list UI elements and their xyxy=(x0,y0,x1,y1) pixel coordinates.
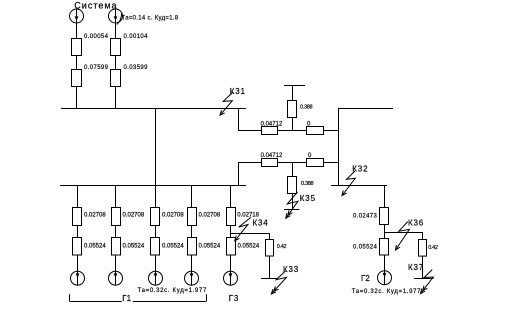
svg-text:0.00104: 0.00104 xyxy=(124,34,149,40)
svg-text:К37: К37 xyxy=(408,263,424,272)
svg-text:К34: К34 xyxy=(253,219,269,228)
svg-text:К33: К33 xyxy=(283,265,299,274)
svg-text:Та=0.14 с. Куд=1.8: Та=0.14 с. Куд=1.8 xyxy=(122,16,179,22)
svg-text:Г3: Г3 xyxy=(229,294,239,303)
svg-text:0.02473: 0.02473 xyxy=(353,214,377,220)
svg-text:0.04712: 0.04712 xyxy=(261,122,283,128)
svg-text:К32: К32 xyxy=(352,164,368,173)
svg-text:0.02718: 0.02718 xyxy=(237,213,259,219)
svg-text:0.02708: 0.02708 xyxy=(123,213,145,219)
svg-text:0.00054: 0.00054 xyxy=(84,34,109,40)
svg-text:0.02708: 0.02708 xyxy=(84,213,106,219)
svg-text:0.04712: 0.04712 xyxy=(261,153,283,159)
svg-text:0.03599: 0.03599 xyxy=(124,65,149,71)
svg-text:0.05524: 0.05524 xyxy=(238,244,260,250)
svg-text:Г1: Г1 xyxy=(122,294,131,303)
svg-text:0.05524: 0.05524 xyxy=(123,244,145,250)
svg-text:Та=0.32с. Куд=1.977: Та=0.32с. Куд=1.977 xyxy=(352,289,421,295)
svg-text:Система: Система xyxy=(74,1,117,11)
svg-text:0.05524: 0.05524 xyxy=(353,245,377,251)
svg-text:Та=0.32с. Куд=1.977: Та=0.32с. Куд=1.977 xyxy=(138,288,207,294)
svg-text:0.05524: 0.05524 xyxy=(162,244,184,250)
svg-text:0.42: 0.42 xyxy=(277,244,287,250)
svg-text:0.05524: 0.05524 xyxy=(84,244,106,250)
svg-text:К35: К35 xyxy=(300,194,316,203)
svg-text:Г2: Г2 xyxy=(361,274,370,283)
svg-text:0.07599: 0.07599 xyxy=(84,65,109,71)
svg-text:0.42: 0.42 xyxy=(428,245,438,251)
svg-text:0.02708: 0.02708 xyxy=(162,213,184,219)
svg-text:К36: К36 xyxy=(408,219,424,228)
svg-text:0.388: 0.388 xyxy=(300,104,313,110)
svg-text:К31: К31 xyxy=(230,87,246,96)
svg-text:0.388: 0.388 xyxy=(301,181,314,187)
svg-text:0.05524: 0.05524 xyxy=(199,244,221,250)
svg-text:0.02708: 0.02708 xyxy=(199,213,221,219)
